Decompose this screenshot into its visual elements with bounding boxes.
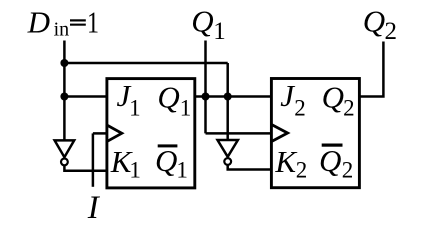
wire corner vertical down to inverter2 bbox=[226, 63, 229, 140]
svg-text:Q: Q bbox=[155, 143, 177, 178]
wire clock2 horizontal bbox=[206, 132, 272, 135]
inverter 1 bubble bbox=[61, 159, 68, 166]
junction dot Din/top-wire bbox=[60, 59, 68, 67]
svg-text:Q: Q bbox=[319, 143, 341, 178]
svg-text:1: 1 bbox=[180, 95, 192, 120]
svg-text:1: 1 bbox=[87, 5, 99, 40]
wire Q1 output to J2 bbox=[195, 95, 272, 98]
svg-text:Q: Q bbox=[191, 3, 213, 38]
svg-text:I: I bbox=[87, 190, 101, 226]
svg-text:1: 1 bbox=[129, 158, 141, 183]
clock chevron U2 bbox=[272, 125, 288, 141]
wire Din vertical bbox=[63, 41, 66, 141]
svg-text:in: in bbox=[54, 18, 70, 40]
wire J1 input bbox=[64, 95, 107, 98]
svg-text:Q: Q bbox=[157, 79, 179, 114]
svg-text:2: 2 bbox=[294, 95, 306, 120]
node label Q1 (top) bbox=[191, 3, 226, 44]
wire clock1 horizontal bbox=[93, 132, 107, 135]
svg-text:Q: Q bbox=[322, 79, 344, 114]
flip-flop U1 box bbox=[107, 79, 195, 188]
wire K2 input from inverter2 bbox=[228, 165, 272, 170]
pin label Q2 (U2 output) bbox=[322, 79, 355, 120]
inverter 2 triangle bbox=[218, 140, 238, 157]
svg-text:2: 2 bbox=[296, 158, 308, 183]
pin label J2 bbox=[280, 78, 306, 120]
junction dot Din/J1 bbox=[60, 93, 68, 101]
wire Q1 label vertical bbox=[204, 41, 207, 134]
pin label J1 bbox=[117, 78, 141, 120]
pin label Q2bar bbox=[319, 143, 353, 183]
svg-text:Q: Q bbox=[363, 3, 385, 38]
svg-text:2: 2 bbox=[385, 18, 398, 45]
svg-text:1: 1 bbox=[213, 18, 226, 45]
svg-text:D: D bbox=[27, 5, 50, 40]
junction dot Q1/label bbox=[202, 93, 210, 101]
svg-text:K: K bbox=[274, 144, 298, 179]
node label Q2 (top) bbox=[363, 3, 397, 44]
svg-text:2: 2 bbox=[343, 95, 355, 120]
label Din=1 bbox=[27, 5, 99, 41]
clock chevron U1 bbox=[108, 125, 122, 141]
svg-text:1: 1 bbox=[129, 95, 141, 120]
pin label K2 bbox=[274, 144, 307, 183]
pin label Q1bar bbox=[155, 143, 188, 183]
wire I vertical bbox=[92, 133, 95, 186]
flip-flop U2 box bbox=[271, 79, 359, 188]
wire Q2 output bbox=[359, 42, 383, 97]
inverter 2 bubble bbox=[224, 158, 231, 165]
inverter 1 triangle bbox=[55, 140, 75, 157]
svg-text:J: J bbox=[280, 78, 295, 113]
junction dot Q1/inverter2 bbox=[224, 93, 232, 101]
pin label K1 bbox=[110, 144, 141, 183]
wire top horizontal Din to inverter2 bbox=[64, 62, 227, 65]
wire K1 input from inverter1 bbox=[64, 166, 107, 171]
svg-text:2: 2 bbox=[342, 158, 354, 183]
svg-text:1: 1 bbox=[176, 158, 188, 183]
pin label Q1 (U1 output) bbox=[157, 79, 191, 120]
